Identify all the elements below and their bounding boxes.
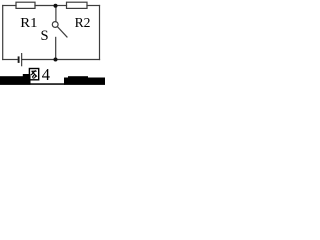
battery negative plate (short thick) (18, 56, 20, 63)
wire top-left segment (3, 5, 16, 7)
svg-text:S: S (41, 28, 49, 44)
wire top-right segment (87, 5, 100, 7)
switch S blade (open) (57, 27, 67, 37)
wire switch upper lead (55, 6, 57, 22)
bottom cropped text bar left (0, 76, 31, 85)
wire node B to bottom-right corner (56, 59, 100, 61)
wire left side (2, 6, 4, 60)
wire node A to R2 (56, 5, 67, 7)
wire battery to node B (23, 59, 56, 61)
resistor R2 (67, 2, 88, 8)
bottom cropped text bar right (64, 78, 105, 85)
wire R1 to node A (35, 5, 56, 7)
wire right side (99, 6, 101, 60)
node A junction dot (54, 4, 58, 8)
battery positive plate (long thin) (21, 53, 23, 66)
switch S pivot circle (52, 22, 58, 28)
svg-text:R1: R1 (20, 16, 37, 31)
bottom rule under caption (31, 83, 65, 85)
wire bottom-left to battery (3, 59, 18, 61)
resistor R1 (16, 2, 35, 8)
svg-text:4: 4 (42, 65, 50, 84)
caption 图 (drawn glyph) (29, 69, 38, 80)
node B junction dot (54, 58, 58, 62)
wire switch lower lead (55, 37, 57, 59)
svg-text:R2: R2 (75, 16, 91, 31)
